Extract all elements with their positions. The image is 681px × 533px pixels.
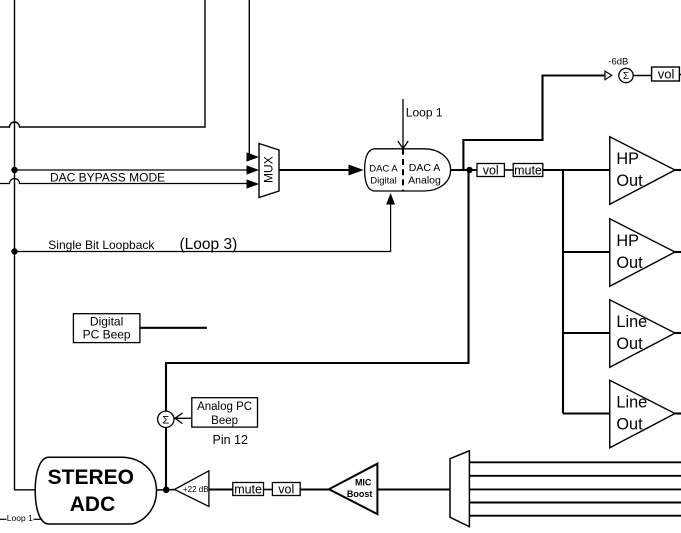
summer U1 (Σ)	[619, 68, 633, 82]
wire: record bus line 1	[469, 461, 681, 463]
label: Loop 1 (bottom left) with leader lines	[0, 513, 43, 523]
svg-text:DAC BYPASS MODE: DAC BYPASS MODE	[50, 171, 165, 185]
amp: MIC Boost	[329, 464, 378, 514]
wire: vol to mute	[504, 169, 513, 171]
amp: +22 dB mic gain	[174, 471, 209, 507]
box: mute (record path)	[233, 483, 264, 497]
svg-text:DAC A: DAC A	[369, 163, 398, 174]
wire: summer to ADC junction	[165, 428, 167, 490]
box: mute (DAC A path)	[513, 164, 543, 178]
svg-text:Out: Out	[616, 172, 643, 190]
svg-text:mute: mute	[514, 164, 542, 178]
wire: Loop 1 input into DAC top	[402, 99, 404, 148]
box: Digital PC Beep	[73, 314, 139, 343]
svg-text:Σ: Σ	[623, 71, 629, 82]
wire: record bus line 3	[469, 488, 681, 490]
box: vol (record path)	[272, 483, 300, 497]
svg-text:Boost: Boost	[347, 489, 373, 499]
box: Analog PC Beep	[192, 398, 258, 427]
wire: DAC bypass upper line	[15, 169, 249, 171]
block: DAC A (digital/analog)	[365, 149, 451, 191]
svg-text:Beep: Beep	[211, 415, 238, 427]
wire: +22dB to mute	[209, 488, 233, 490]
wire: left vertical bus to STEREO ADC	[15, 0, 36, 490]
wire: MUX output to DAC A	[279, 169, 350, 171]
wire: ADC output to junction	[157, 489, 176, 491]
svg-text:DAC A: DAC A	[409, 162, 441, 174]
svg-text:Loop 1: Loop 1	[7, 513, 33, 523]
wire: branch to HP Out 2	[563, 251, 610, 253]
box: vol (top right, clipped)	[652, 66, 681, 81]
svg-text:Out: Out	[616, 254, 643, 272]
wire: record bus line 5	[469, 515, 681, 517]
svg-text:STEREO: STEREO	[48, 466, 134, 489]
svg-text:(Loop 3): (Loop 3)	[180, 236, 238, 253]
svg-text:Pin 12: Pin 12	[213, 433, 248, 447]
svg-text:Line: Line	[616, 313, 647, 331]
svg-text:Analog PC: Analog PC	[197, 401, 252, 413]
node: junction at ADC output	[163, 487, 170, 494]
wire: MUX top input from top edge	[248, 0, 251, 157]
svg-text:MIC: MIC	[355, 478, 372, 488]
svg-text:vol: vol	[483, 164, 499, 178]
node: junction at DAC A output	[466, 167, 472, 173]
wire: vol to MIC Boost	[300, 488, 329, 490]
buffer: -6dB feed triangle	[605, 71, 612, 80]
svg-text:MUX: MUX	[262, 156, 276, 183]
svg-text:Σ: Σ	[162, 414, 169, 426]
summer U2 (Σ) at ADC input	[158, 411, 174, 427]
svg-text:+22 dB: +22 dB	[183, 485, 209, 494]
mux: record source selector (trapezoid)	[450, 451, 469, 527]
node: junction on left bus (DAC bypass)	[11, 167, 17, 173]
wire: summer to vol (top right)	[633, 75, 651, 77]
svg-text:PC Beep: PC Beep	[83, 328, 131, 342]
wire: top-left feedback rectangle with hop over left bus	[0, 0, 205, 127]
svg-text:HP: HP	[616, 150, 639, 168]
svg-text:ADC: ADC	[70, 493, 116, 516]
node: junction on left bus (single bit loopback)	[11, 248, 17, 254]
mux MUX	[259, 144, 279, 198]
svg-text:Line: Line	[616, 394, 647, 412]
wire: record bus line 2	[469, 475, 681, 477]
wire: beep into summer	[176, 417, 192, 419]
svg-text:Digital: Digital	[90, 314, 123, 328]
amp: Line Out 1	[610, 300, 681, 368]
svg-text:Digital: Digital	[370, 175, 396, 186]
svg-text:Loop 1: Loop 1	[406, 106, 443, 120]
svg-text:Out: Out	[616, 335, 643, 353]
wire: MIC Boost to record mux	[377, 488, 450, 490]
svg-text:vol: vol	[278, 483, 294, 497]
wire: mute to vol	[264, 489, 273, 491]
wire: Single Bit Loopback (Loop 3) to DAC bottom	[15, 203, 391, 252]
amp: Line Out 2	[610, 380, 681, 448]
wire: DAC bypass lower line with hop	[0, 179, 248, 184]
wire: output distribution vertical	[562, 170, 564, 414]
svg-text:Analog: Analog	[408, 175, 441, 187]
svg-text:Out: Out	[616, 416, 643, 434]
wire: branch to Line Out 1	[563, 332, 610, 334]
wire: mute to HP Out 1	[543, 169, 610, 171]
box: vol (DAC A path)	[477, 164, 504, 178]
wire: digital beep stub	[140, 327, 207, 329]
svg-text:vol: vol	[658, 66, 675, 81]
wire: DAC A output	[451, 169, 477, 171]
svg-text:-6dB: -6dB	[608, 57, 628, 68]
wire: branch to Line Out 2	[563, 412, 610, 414]
svg-text:HP: HP	[616, 232, 639, 250]
wire: DAC output up to -6dB summer	[463, 76, 604, 171]
svg-text:Single Bit Loopback: Single Bit Loopback	[48, 238, 155, 252]
amp: HP Out 2	[610, 219, 681, 287]
block: STEREO ADC	[35, 457, 156, 524]
wire: record bus line 4	[469, 502, 681, 504]
amp: HP Out 1	[610, 137, 681, 205]
wire: analog loopback from DAC output down to ADC summer	[166, 170, 469, 411]
svg-text:mute: mute	[234, 483, 262, 497]
